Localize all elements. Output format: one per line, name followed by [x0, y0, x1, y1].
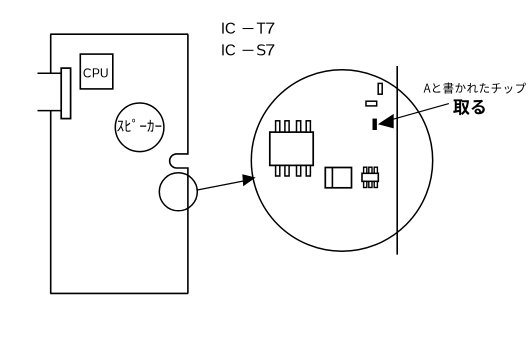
speaker circle SP1: [115, 103, 164, 152]
capacitor C1 (rect with stripe): [325, 168, 351, 188]
IC U2 pins: [276, 121, 311, 176]
small horizontal part R2: [366, 101, 377, 106]
magnifier source circle on board edge: [159, 173, 197, 211]
label IC-S7: [222, 44, 274, 55]
label CPU: [84, 68, 108, 77]
IC U3 (small 6-pin) body: [362, 173, 378, 181]
arrow from source circle to detail circle: [197, 181, 243, 190]
chip A (black chip to remove): [373, 119, 377, 130]
arrow pointing to chip A: [393, 104, 449, 120]
label A to kakareta chip: [424, 82, 526, 93]
label IC-T7: [222, 23, 274, 34]
CPU box U1: [80, 54, 113, 89]
IC U2 (DIP-8) body: [270, 132, 313, 165]
label toru (remove): [453, 99, 485, 115]
connector J1 (left edge plug): [38, 68, 71, 119]
small vertical part R1: [378, 83, 382, 94]
board edge line inside detail view: [396, 66, 398, 255]
label speaker (half-width katakana): [117, 119, 161, 132]
board right edge with notch: [170, 34, 188, 293]
detail (magnified) circle: [251, 70, 432, 251]
board outline (left PCB): [50, 34, 188, 293]
IC U3 pins: [364, 167, 378, 187]
